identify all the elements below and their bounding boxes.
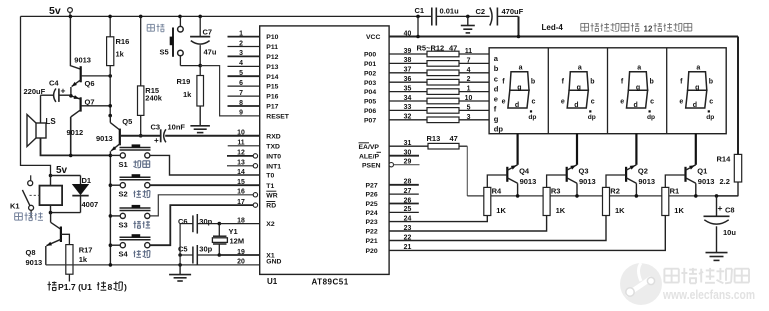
svg-text:C8: C8 — [725, 206, 735, 215]
capacitor C4 220uF — [24, 79, 71, 102]
svg-text:g: g — [695, 84, 699, 91]
svg-text:5v: 5v — [56, 165, 68, 176]
pin 13 stub — [227, 165, 253, 167]
wire display common 1 — [516, 134, 518, 165]
svg-text:b: b — [494, 64, 499, 73]
svg-text:240k: 240k — [145, 94, 163, 103]
svg-text:S1: S1 — [119, 160, 128, 169]
svg-text:2.2: 2.2 — [720, 177, 730, 186]
wire button common rail (Q5 emitter) — [109, 154, 113, 267]
svg-text:S2: S2 — [119, 190, 128, 199]
pin 26 stub — [389, 203, 419, 205]
svg-text:ALE/P: ALE/P — [359, 154, 379, 161]
display divider 1 — [547, 48, 549, 134]
svg-text:47u: 47u — [204, 47, 217, 56]
resistor R16 1k — [107, 15, 130, 116]
display pin letters a-dp — [494, 54, 504, 133]
svg-text:5: 5 — [239, 70, 243, 77]
svg-text:a: a — [519, 64, 523, 71]
resistor segment (pin 33 to display 5) — [389, 104, 489, 113]
wire S2 to MCU pin 15 T1 — [150, 184, 260, 186]
label relay (jidianqi) — [14, 213, 16, 220]
wire Q6 base to R16 column — [81, 74, 112, 78]
svg-text:10: 10 — [237, 130, 245, 137]
svg-text:d: d — [693, 102, 697, 109]
wire crystal to MCU pin 18 X2 — [219, 223, 259, 225]
svg-text:13: 13 — [237, 160, 245, 167]
svg-text:+: + — [61, 86, 66, 96]
svg-text:1: 1 — [239, 30, 243, 37]
transistor Q7 9012 — [67, 95, 95, 155]
ground (below C8) — [716, 252, 718, 254]
svg-text:dp: dp — [647, 114, 655, 121]
resistor segment (pin 35 to display 1) — [389, 86, 489, 95]
svg-text:47: 47 — [450, 134, 458, 143]
resistor R13 47 — [389, 134, 467, 149]
wire driver emitter rail — [467, 195, 738, 197]
svg-text:P23: P23 — [366, 219, 378, 226]
wire 5V top rail — [21, 16, 519, 36]
svg-text:a: a — [696, 64, 700, 71]
svg-text:b: b — [531, 78, 535, 85]
svg-text:3: 3 — [467, 114, 471, 121]
wire crystal to MCU pin 19 X1 — [219, 254, 259, 256]
node VCC rail taps — [416, 15, 420, 37]
svg-text:4: 4 — [239, 60, 243, 67]
svg-text:19: 19 — [237, 249, 245, 256]
wire left border 5V feed — [21, 16, 51, 175]
pin 2 stub — [228, 46, 260, 48]
svg-text:18: 18 — [237, 217, 245, 224]
capacitor C7 47u — [190, 15, 217, 66]
svg-text:6: 6 — [239, 80, 243, 87]
svg-text:b: b — [590, 78, 594, 85]
capacitor C3 10nF — [120, 122, 186, 145]
display module Led-4 — [489, 48, 726, 134]
svg-text:R16: R16 — [116, 37, 130, 46]
wire S1 to MCU pin 14 T0 — [150, 155, 260, 175]
pushbutton S3 — [110, 205, 150, 230]
svg-text:Q7: Q7 — [85, 97, 95, 106]
pushbutton S4 — [110, 234, 150, 259]
svg-text:P15: P15 — [266, 84, 278, 91]
wire display common 4 — [695, 134, 697, 165]
svg-text:RXD: RXD — [266, 133, 280, 140]
svg-text:P06: P06 — [364, 108, 376, 115]
svg-text:T0: T0 — [266, 173, 274, 180]
wire C5/C6 ground column — [179, 224, 181, 265]
svg-text:P00: P00 — [364, 52, 376, 59]
svg-text:S3: S3 — [119, 220, 128, 229]
svg-text:e: e — [620, 98, 624, 105]
svg-text:RESET: RESET — [266, 114, 290, 121]
wire relay/diode bottom junction — [49, 211, 81, 215]
svg-text:3: 3 — [239, 50, 243, 57]
svg-text:17: 17 — [237, 199, 245, 206]
svg-text:dp: dp — [528, 114, 536, 121]
svg-text:P24: P24 — [366, 210, 378, 217]
svg-text:1K: 1K — [674, 206, 684, 215]
svg-text:1k: 1k — [116, 50, 125, 59]
svg-text:g: g — [494, 114, 499, 123]
svg-text:8: 8 — [239, 100, 243, 107]
wire Q6 collector from 5V — [70, 16, 80, 69]
svg-text:P27: P27 — [366, 182, 378, 189]
7-segment digit 3 — [620, 64, 655, 121]
svg-text:TXD: TXD — [266, 143, 280, 150]
wire MCU pin 24 to R4 — [389, 216, 487, 222]
resistor segment (pin 37 to display 4) — [389, 67, 489, 76]
wire display common 2 — [576, 134, 578, 165]
ground (top, between C1 and C2) — [461, 15, 475, 33]
svg-text:www.elecfans.com: www.elecfans.com — [662, 288, 755, 302]
svg-text:1K: 1K — [496, 206, 506, 215]
svg-text:U1: U1 — [267, 277, 278, 286]
7-segment digit 4 — [679, 64, 714, 121]
svg-text:d: d — [634, 102, 638, 109]
svg-text:Q2: Q2 — [638, 167, 648, 176]
svg-text:16: 16 — [237, 189, 245, 196]
svg-text:LS: LS — [46, 117, 57, 126]
capacitor C1 0.01u — [415, 6, 460, 25]
svg-text:P16: P16 — [266, 94, 278, 101]
resistor R3 1K — [543, 175, 567, 216]
svg-text:9013: 9013 — [579, 177, 596, 186]
svg-text:P14: P14 — [266, 74, 278, 81]
svg-text:Q5: Q5 — [122, 117, 132, 126]
wire speaker bottom to Q7 collector junction — [41, 138, 111, 157]
svg-text:P22: P22 — [366, 229, 378, 236]
svg-text:20: 20 — [237, 259, 245, 266]
svg-text:S4: S4 — [119, 250, 129, 259]
svg-text:1k: 1k — [79, 255, 88, 264]
svg-text:c: c — [532, 98, 536, 105]
pushbutton S5 (reset) — [147, 15, 200, 66]
relay contact switch — [22, 175, 39, 217]
svg-text:e: e — [561, 98, 565, 105]
svg-text:1: 1 — [467, 86, 471, 93]
svg-text:C6: C6 — [178, 217, 188, 226]
relay K1 coil — [10, 176, 62, 213]
pin 3 stub — [228, 55, 260, 57]
svg-text:P20: P20 — [366, 248, 378, 255]
wire Q7 base to R16 column — [81, 104, 112, 108]
svg-text:c: c — [709, 98, 713, 105]
label: to P1.7 (pin 8 of U1) — [48, 282, 128, 293]
svg-text:1K: 1K — [556, 206, 566, 215]
svg-text:P13: P13 — [266, 64, 278, 71]
svg-text:RD: RD — [266, 203, 276, 210]
MCU U1 AT89C51 — [260, 26, 389, 275]
transistor Q3 9013 — [567, 165, 596, 198]
svg-text:P02: P02 — [364, 70, 376, 77]
svg-text:P03: P03 — [364, 80, 376, 87]
svg-text:30p: 30p — [199, 245, 212, 254]
wire C3 to MCU pin 10 RXD — [165, 135, 260, 137]
resistor R14 2.2 — [717, 154, 742, 196]
svg-text:e: e — [679, 98, 683, 105]
svg-text:30p: 30p — [199, 217, 212, 226]
svg-text:e: e — [502, 98, 506, 105]
svg-text:b: b — [650, 78, 654, 85]
svg-text:dp: dp — [706, 114, 714, 121]
pushbutton S1 — [110, 144, 150, 169]
svg-text:10nF: 10nF — [168, 123, 186, 132]
svg-text:11: 11 — [237, 140, 244, 147]
svg-text:+: + — [154, 136, 159, 145]
svg-text:dp: dp — [494, 125, 504, 134]
pin 29 stub PSEN — [394, 164, 420, 166]
pin 1 stub — [228, 36, 260, 38]
svg-text:e: e — [494, 94, 498, 103]
7-segment digit 1 — [502, 64, 537, 121]
svg-text:WR: WR — [266, 192, 277, 199]
resistor R1 1K — [662, 175, 686, 216]
svg-text:8: 8 — [108, 282, 113, 292]
svg-text:d: d — [515, 102, 519, 109]
diode D1 4007 — [51, 176, 99, 213]
svg-text:dp: dp — [588, 114, 596, 121]
svg-text:R19: R19 — [177, 77, 191, 86]
svg-text:9013: 9013 — [520, 177, 537, 186]
svg-text:INT1: INT1 — [266, 163, 281, 170]
svg-text:4007: 4007 — [82, 200, 99, 209]
svg-text:Q3: Q3 — [579, 167, 589, 176]
svg-text:C4: C4 — [49, 79, 59, 88]
wire MCU pin 21 to R1 — [389, 216, 665, 251]
resistor segment (pin 39 to display 11) — [389, 48, 489, 57]
MCU right pin labels — [359, 34, 382, 255]
ground (GND bus) — [169, 263, 191, 281]
pin 17 inversion bubble — [253, 203, 257, 207]
svg-text:4: 4 — [467, 67, 471, 74]
wire reset to MCU pin 9 — [200, 66, 260, 116]
transistor Q8 9013 — [26, 213, 61, 267]
capacitor C5 30p — [178, 245, 219, 265]
svg-text:g: g — [517, 84, 521, 91]
svg-text:7: 7 — [239, 90, 243, 97]
svg-text:R17: R17 — [79, 245, 93, 254]
svg-text:9013: 9013 — [26, 258, 43, 267]
svg-text:EA/VP: EA/VP — [359, 144, 380, 151]
pin 7 stub — [228, 95, 260, 97]
svg-text:7: 7 — [467, 57, 471, 64]
svg-text:9013: 9013 — [74, 56, 91, 65]
svg-text:Y1: Y1 — [229, 227, 238, 236]
svg-text:c: c — [650, 98, 654, 105]
svg-text:+: + — [718, 203, 723, 213]
7-segment digit 2 — [561, 64, 596, 121]
svg-text:2: 2 — [239, 40, 243, 47]
svg-text:2: 2 — [467, 76, 471, 83]
svg-text:c: c — [591, 98, 595, 105]
svg-text:P21: P21 — [366, 238, 378, 245]
pin 13 inversion bubble — [253, 164, 257, 168]
svg-text:9013: 9013 — [638, 177, 655, 186]
svg-text:g: g — [636, 84, 640, 91]
svg-text:1k: 1k — [183, 90, 192, 99]
svg-text:P10: P10 — [266, 34, 278, 41]
speaker LS — [27, 95, 56, 146]
svg-text:12: 12 — [237, 150, 245, 157]
svg-text:9013: 9013 — [698, 177, 715, 186]
transistor Q4 9013 — [507, 165, 536, 198]
pin 16 inversion bubble — [253, 193, 257, 197]
svg-text:12M: 12M — [230, 236, 245, 245]
transistor Q2 9013 — [626, 165, 655, 198]
pin 8 stub — [228, 105, 260, 107]
svg-text:d: d — [574, 102, 578, 109]
capacitor C2 470uF — [476, 7, 524, 26]
svg-text:a: a — [578, 64, 582, 71]
transistor Q6 9013 — [71, 56, 95, 96]
capacitor C6 30p — [178, 214, 219, 234]
svg-text:C2: C2 — [476, 7, 486, 16]
svg-text:P12: P12 — [266, 54, 278, 61]
pin 29 inversion bubble — [389, 163, 393, 167]
crystal Y1 12M — [212, 222, 244, 257]
svg-text:P04: P04 — [364, 89, 376, 96]
resistor R17 1k — [61, 234, 93, 281]
svg-text:9: 9 — [239, 110, 243, 117]
svg-text:R3: R3 — [551, 186, 561, 195]
svg-text:9013: 9013 — [96, 134, 113, 143]
transistor Q5 9013 — [96, 114, 132, 156]
wire VCC pin40 rail to R14 — [389, 35, 738, 155]
svg-text:T1: T1 — [266, 183, 274, 190]
transistor Q1 9013 — [686, 165, 715, 198]
resistor segment (pin 34 to display 10) — [389, 95, 489, 104]
svg-text:P11: P11 — [266, 44, 278, 51]
svg-text:10: 10 — [465, 95, 473, 102]
pin 30 stub ALE — [389, 155, 419, 157]
svg-text:PSEN: PSEN — [362, 163, 381, 170]
svg-text:P01: P01 — [364, 61, 376, 68]
label display annotation (common anode 12-pin) — [581, 23, 692, 34]
svg-text:Q4: Q4 — [519, 167, 530, 176]
wire MCU pin 22 to R2 — [389, 216, 606, 241]
resistor R2 1K — [603, 175, 627, 216]
svg-text:D1: D1 — [82, 176, 92, 185]
resistor segment (pin 36 to display 2) — [389, 76, 489, 85]
display divider 2 — [607, 48, 609, 134]
svg-text:R1: R1 — [670, 186, 680, 195]
wire ground row (GND bus to MCU pin 20) — [46, 264, 260, 266]
svg-text:C1: C1 — [415, 6, 425, 15]
svg-text:Q6: Q6 — [85, 79, 95, 88]
svg-text:P17: P17 — [266, 104, 278, 111]
wire display common 3 — [635, 134, 637, 165]
pin 5 stub — [228, 75, 260, 77]
svg-text:g: g — [577, 84, 581, 91]
svg-text:S5: S5 — [160, 48, 169, 57]
svg-text:R4: R4 — [492, 186, 502, 195]
capacitor C8 10u — [704, 194, 737, 253]
pin 4 stub — [228, 65, 260, 67]
svg-text:14: 14 — [237, 169, 245, 176]
svg-text:): ) — [124, 282, 127, 292]
svg-text:R2: R2 — [610, 186, 620, 195]
svg-text:C3: C3 — [151, 122, 161, 131]
pin 12 inversion bubble — [253, 154, 257, 158]
resistor R4 1K — [484, 175, 508, 216]
ground (below R19) — [199, 106, 201, 126]
pin 11 stub — [228, 145, 260, 147]
resistor segment (pin 38 to display 7) — [389, 57, 489, 66]
svg-text:5: 5 — [467, 104, 471, 111]
pin 12 stub — [227, 155, 253, 157]
svg-text:Q8: Q8 — [26, 248, 36, 257]
svg-text:9012: 9012 — [67, 128, 84, 137]
svg-text:11: 11 — [465, 48, 472, 55]
resistor R19 1k — [177, 64, 204, 106]
svg-text:X2: X2 — [266, 221, 275, 228]
svg-text:P05: P05 — [364, 99, 376, 106]
resistor segment (pin 32 to display 3) — [389, 114, 489, 123]
display divider 3 — [666, 48, 668, 134]
svg-text:Led-4: Led-4 — [542, 23, 564, 32]
svg-text:Q1: Q1 — [697, 167, 707, 176]
pin 25 stub — [389, 211, 419, 213]
wire MCU pin 23 to R3 — [389, 216, 546, 232]
svg-text:AT89C51: AT89C51 — [312, 278, 349, 287]
svg-text:C5: C5 — [178, 245, 188, 254]
svg-text:R14: R14 — [717, 155, 732, 164]
svg-text:1K: 1K — [615, 206, 625, 215]
wire R13 to driver rail — [466, 146, 468, 196]
MCU left pin labels — [266, 34, 290, 265]
svg-text:K1: K1 — [10, 201, 20, 210]
svg-text:5v: 5v — [49, 5, 61, 17]
svg-text:12: 12 — [644, 25, 653, 34]
svg-text:INT0: INT0 — [266, 154, 281, 161]
5V terminal — [49, 5, 72, 18]
svg-text:R13: R13 — [427, 134, 441, 143]
svg-text:P1.7 (U1: P1.7 (U1 — [58, 282, 92, 292]
wire S4 to MCU pin 17 RD — [150, 205, 253, 245]
pushbutton S2 — [110, 174, 150, 199]
watermark logo — [620, 258, 662, 306]
watermark text — [662, 268, 755, 302]
resistor R15 240k — [138, 15, 163, 138]
pin 6 stub — [228, 85, 260, 87]
svg-text:0.01u: 0.01u — [440, 7, 460, 16]
svg-text:c: c — [494, 74, 498, 83]
svg-text:VCC: VCC — [366, 34, 380, 41]
svg-text:GND: GND — [266, 259, 281, 266]
5V label (relay branch) — [49, 165, 68, 177]
pin 27 stub — [389, 193, 419, 195]
svg-text:P07: P07 — [364, 117, 376, 124]
svg-text:d: d — [494, 84, 499, 93]
svg-text:b: b — [709, 78, 713, 85]
svg-text:P26: P26 — [366, 192, 378, 199]
pin 28 stub — [389, 184, 419, 186]
svg-text:C7: C7 — [203, 27, 213, 36]
svg-text:470uF: 470uF — [502, 7, 524, 16]
svg-text:P25: P25 — [366, 201, 378, 208]
wire S3 to MCU pin 16 WR — [150, 195, 253, 216]
svg-text:10u: 10u — [723, 228, 736, 237]
svg-text:15: 15 — [237, 179, 245, 186]
svg-text:a: a — [637, 64, 641, 71]
node Q6/Q7 emitter junction — [69, 94, 73, 98]
